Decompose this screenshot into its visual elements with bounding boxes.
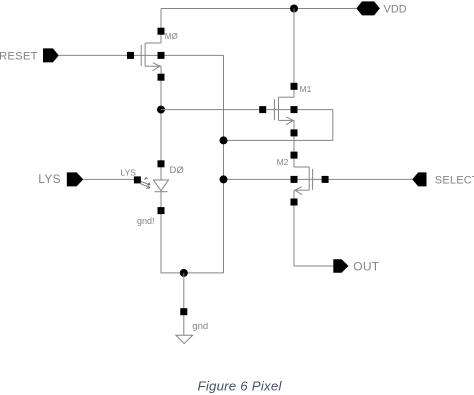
svg-text:LYS: LYS <box>121 168 137 178</box>
junction node A <box>157 106 165 114</box>
label SELECT <box>435 174 474 186</box>
wire gnd riser <box>183 273 185 335</box>
wire bulk net to M2 and SELECT row <box>224 178 413 180</box>
label M2 <box>277 157 289 167</box>
pin M0 drain <box>158 28 165 35</box>
wire RESET row to bulk net <box>59 54 224 56</box>
svg-text:gnd: gnd <box>192 321 208 332</box>
pin M2 gate <box>322 176 329 183</box>
pin M1 gate <box>259 106 266 113</box>
transistor M0 <box>141 43 161 71</box>
wire D0 cathode down <box>161 192 224 273</box>
junction bulk net / M2 <box>220 175 228 183</box>
pin D0 cathode <box>158 207 165 214</box>
label M1 <box>300 84 312 94</box>
diode D0 <box>154 180 169 192</box>
label D0 <box>170 165 185 176</box>
pin M2 bulk <box>291 176 298 183</box>
port LYS arrow <box>67 172 84 186</box>
D0 light arrows <box>140 178 150 189</box>
pin M0 bulk <box>158 52 165 59</box>
wire M0 source / node A column <box>160 66 162 180</box>
label M0 <box>165 32 178 41</box>
pin M0 gate <box>127 52 134 59</box>
wire node A to M1 bulk loop top <box>161 109 333 111</box>
pin M2 source <box>291 199 298 206</box>
wire M1 source to M2 drain <box>293 120 295 167</box>
transistor M1 <box>274 97 294 125</box>
svg-text:M1: M1 <box>300 84 312 94</box>
pin D0 anode <box>158 160 165 167</box>
junction VDD / M1 drain <box>290 5 298 13</box>
junction bulk net / M1 loop <box>220 136 228 144</box>
ground symbol <box>176 335 193 343</box>
port RESET arrow <box>43 48 59 62</box>
svg-text:Figure 6 Pixel: Figure 6 Pixel <box>198 379 283 394</box>
pin M0 source <box>158 74 165 81</box>
svg-text:VDD: VDD <box>384 3 407 15</box>
pin M1 bulk <box>291 106 298 113</box>
pin M1 drain <box>291 83 298 90</box>
svg-text:OUT: OUT <box>353 259 380 273</box>
wire M0 drain riser <box>160 9 162 44</box>
power symbol VDD <box>356 1 379 15</box>
pin gnd <box>180 308 187 315</box>
label LYS port <box>38 172 61 186</box>
svg-text:gnd!: gnd! <box>137 216 155 226</box>
wire VDD top rail <box>161 8 356 10</box>
svg-text:LYS: LYS <box>38 172 61 186</box>
transistor M2 (mirrored) <box>294 167 313 195</box>
svg-text:SELECT: SELECT <box>435 174 474 186</box>
port SELECT arrow <box>412 172 426 186</box>
junction gnd node <box>180 269 188 277</box>
wire M1 bulk loop right and bottom <box>224 110 333 141</box>
port OUT arrow <box>333 259 348 272</box>
pin M1 source <box>291 129 298 136</box>
label OUT <box>353 259 380 273</box>
wire bulk net vertical <box>223 55 225 273</box>
label VDD <box>384 3 407 15</box>
label LYS pin <box>121 168 137 178</box>
wire LYS to D0 light pin <box>83 178 137 180</box>
svg-text:M2: M2 <box>277 157 289 167</box>
caption Figure 6 Pixel <box>198 379 283 394</box>
svg-text:MØ: MØ <box>165 32 178 41</box>
wire M1 drain riser <box>293 9 295 98</box>
pin M2 drain <box>291 152 298 159</box>
label gnd <box>192 321 208 332</box>
label gnd! <box>137 216 155 226</box>
svg-text:RESET: RESET <box>0 51 38 63</box>
svg-text:DØ: DØ <box>170 165 185 176</box>
pin D0 light input <box>134 176 141 183</box>
wire M2 source to OUT <box>294 190 333 266</box>
label RESET <box>0 51 38 63</box>
